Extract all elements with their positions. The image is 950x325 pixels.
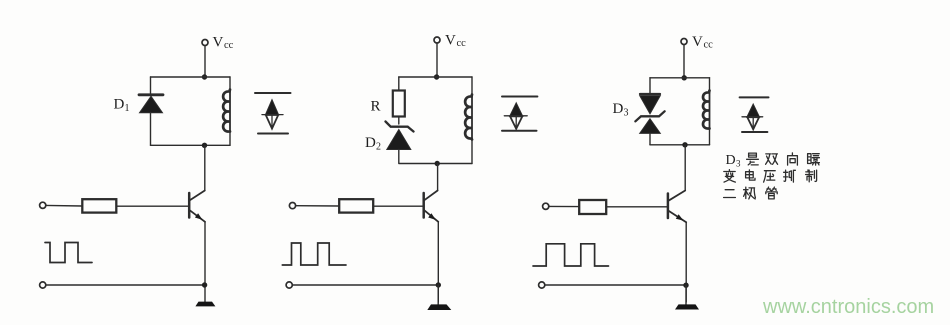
transistor Q3 base bar <box>667 194 670 219</box>
wire to ground 3 <box>685 285 687 304</box>
waveform pulse input 3 <box>533 244 609 266</box>
svg-text:cc: cc <box>224 40 234 51</box>
wire loop right upper 3 <box>709 78 711 91</box>
wire bottom rail 3 <box>545 284 686 286</box>
svg-text:cc: cc <box>457 38 467 49</box>
transistor Q3 emitter arrow <box>676 214 684 220</box>
ground circuit 3 <box>675 304 699 309</box>
char dian(electric) <box>746 170 755 180</box>
inductor L1 coil <box>229 90 231 132</box>
wire loop top 3 <box>650 77 710 79</box>
wire Vcc to loop top <box>436 43 438 77</box>
wire loop right lower 3 <box>709 129 711 145</box>
svg-text:3: 3 <box>736 159 741 169</box>
spike symbol 2 top bar <box>502 96 537 98</box>
bottom terminal circuit 1 <box>40 282 46 288</box>
svg-text:D: D <box>365 135 376 151</box>
char shuang(double) <box>766 154 778 164</box>
spike symbol 2 bottom bar <box>502 130 537 132</box>
svg-text:2: 2 <box>376 142 381 153</box>
transistor Q2 emitter arrow <box>428 213 436 220</box>
watermark <box>763 296 934 319</box>
svg-text:D: D <box>726 153 736 168</box>
svg-text:cc: cc <box>704 39 714 50</box>
char ji(pole) <box>744 187 756 199</box>
waveform pulse input 2 <box>282 243 346 265</box>
char bian(change) <box>724 170 736 182</box>
wire to ground 2 <box>437 285 439 305</box>
svg-text:D: D <box>613 101 624 117</box>
waveform pulse input 1 <box>45 243 92 263</box>
wire zener to loop bottom <box>398 150 400 164</box>
TVS D3 lower triangle <box>640 119 661 134</box>
wire emitter down <box>204 222 206 302</box>
wire base <box>117 205 190 207</box>
wire Vcc to loop top 3 <box>683 45 685 78</box>
spike symbol 1 top bar <box>255 92 291 94</box>
spike symbol 2 arrow <box>510 103 523 117</box>
wire Vcc to loop top <box>204 46 206 77</box>
char xiang(direction) <box>788 153 798 165</box>
zener D2 triangle <box>387 130 411 150</box>
wire loop right lower 2 <box>471 140 473 164</box>
svg-text:V: V <box>692 34 703 50</box>
transistor Q2 emitter diagonal <box>424 210 438 222</box>
transistor Q1 base bar <box>188 193 191 218</box>
Vcc terminal circuit 2 <box>434 37 440 43</box>
wire base 3 <box>607 206 668 208</box>
svg-text:R: R <box>371 99 381 115</box>
wire loop top <box>151 76 231 78</box>
node: loop bottom junction 3 <box>682 142 687 147</box>
node: loop top junction <box>202 74 207 79</box>
wire loop left to resistor <box>398 77 400 91</box>
wire collector 2 <box>437 164 439 191</box>
wire loop bottom <box>151 144 231 146</box>
svg-text:V: V <box>445 33 456 49</box>
ground circuit 2 <box>427 304 451 310</box>
svg-text:1: 1 <box>125 103 130 114</box>
wire loop top 2 <box>399 76 472 78</box>
node: loop top junction 2 <box>434 74 439 79</box>
wire emitter down 3 <box>685 222 687 302</box>
char er(two) <box>724 190 736 198</box>
transistor Q1 collector diagonal <box>190 191 205 201</box>
resistor Rb2 <box>339 199 373 212</box>
resistor Rb1 <box>82 199 116 212</box>
wire loop right upper 2 <box>471 77 473 95</box>
wire input to resistor 2 <box>296 205 339 207</box>
svg-text:3: 3 <box>624 108 629 119</box>
note chinese text: D3 是双向瞬变电压抑制二极管 <box>724 153 820 199</box>
TVS D3 top bar <box>640 93 660 95</box>
resistor R <box>393 91 405 117</box>
spike symbol 3 arrow <box>747 104 760 117</box>
bottom terminal circuit 2 <box>286 282 292 288</box>
input terminal circuit 2 <box>289 203 295 209</box>
spike symbol 1 arrow <box>265 100 278 115</box>
diode D1 triangle <box>140 96 163 113</box>
transistor Q3 emitter diagonal <box>669 211 687 223</box>
wire loop left upper 3 <box>649 78 651 94</box>
wire loop bottom 2 <box>399 163 472 165</box>
inductor L2 coil <box>471 95 473 140</box>
char shi(is) <box>747 153 759 165</box>
spike symbol 3 bottom bar <box>742 131 767 133</box>
transistor Q1 emitter arrow <box>195 213 203 220</box>
bottom terminal circuit 3 <box>539 282 545 288</box>
char shun(transient) <box>808 154 820 165</box>
TVS D3 upper triangle <box>640 96 661 114</box>
svg-text:V: V <box>213 35 224 51</box>
Vcc terminal circuit 3 <box>681 39 687 45</box>
wire emitter down 2 <box>437 222 439 302</box>
input terminal circuit 3 <box>543 203 549 209</box>
wire loop right upper <box>229 77 231 90</box>
wire loop bottom 3 <box>650 144 710 146</box>
wire loop right lower <box>229 132 231 146</box>
svg-text:D: D <box>114 97 125 113</box>
wire bottom rail 2 <box>293 284 439 286</box>
node: emitter rail junction 2 <box>436 282 441 287</box>
input terminal circuit 1 <box>40 202 46 208</box>
node: emitter rail junction <box>202 282 207 287</box>
transistor Q3 collector diagonal <box>669 191 686 201</box>
spike symbol 3 top bar <box>740 96 769 98</box>
zener D2 cathode bar <box>386 122 414 132</box>
char guan(tube) <box>766 187 777 199</box>
node: loop bottom junction <box>202 143 207 148</box>
wire loop left lower <box>150 113 152 146</box>
transistor Q2 base bar <box>422 193 425 218</box>
char yi(suppress) <box>784 170 796 182</box>
wire loop left lower 3 <box>649 133 651 144</box>
char zhi(control) <box>806 170 817 182</box>
inductor L3 coil <box>709 91 711 129</box>
wire collector 3 <box>684 145 686 191</box>
diode D1 cathode bar <box>139 93 163 96</box>
TVS D3 middle bar <box>635 111 664 121</box>
ground circuit 1 <box>195 302 215 307</box>
char ya(pressure) <box>764 171 776 182</box>
node: loop bottom junction 2 <box>435 161 440 166</box>
wire loop left upper <box>150 77 152 95</box>
resistor Rb3 <box>579 200 606 214</box>
wire base 2 <box>374 205 424 207</box>
node: emitter rail junction 3 <box>683 283 688 288</box>
wire input to resistor 3 <box>549 205 579 207</box>
transistor Q1 emitter diagonal <box>190 210 205 222</box>
node: loop top junction 3 <box>682 75 687 80</box>
wire bottom rail <box>46 284 205 286</box>
Vcc terminal circuit 1 <box>202 40 208 46</box>
spike symbol 1 bottom bar <box>258 133 288 135</box>
transistor Q2 collector diagonal <box>424 191 437 201</box>
wire input to resistor <box>46 204 82 207</box>
wire resistor to zener <box>398 117 400 125</box>
wire collector <box>204 145 206 190</box>
